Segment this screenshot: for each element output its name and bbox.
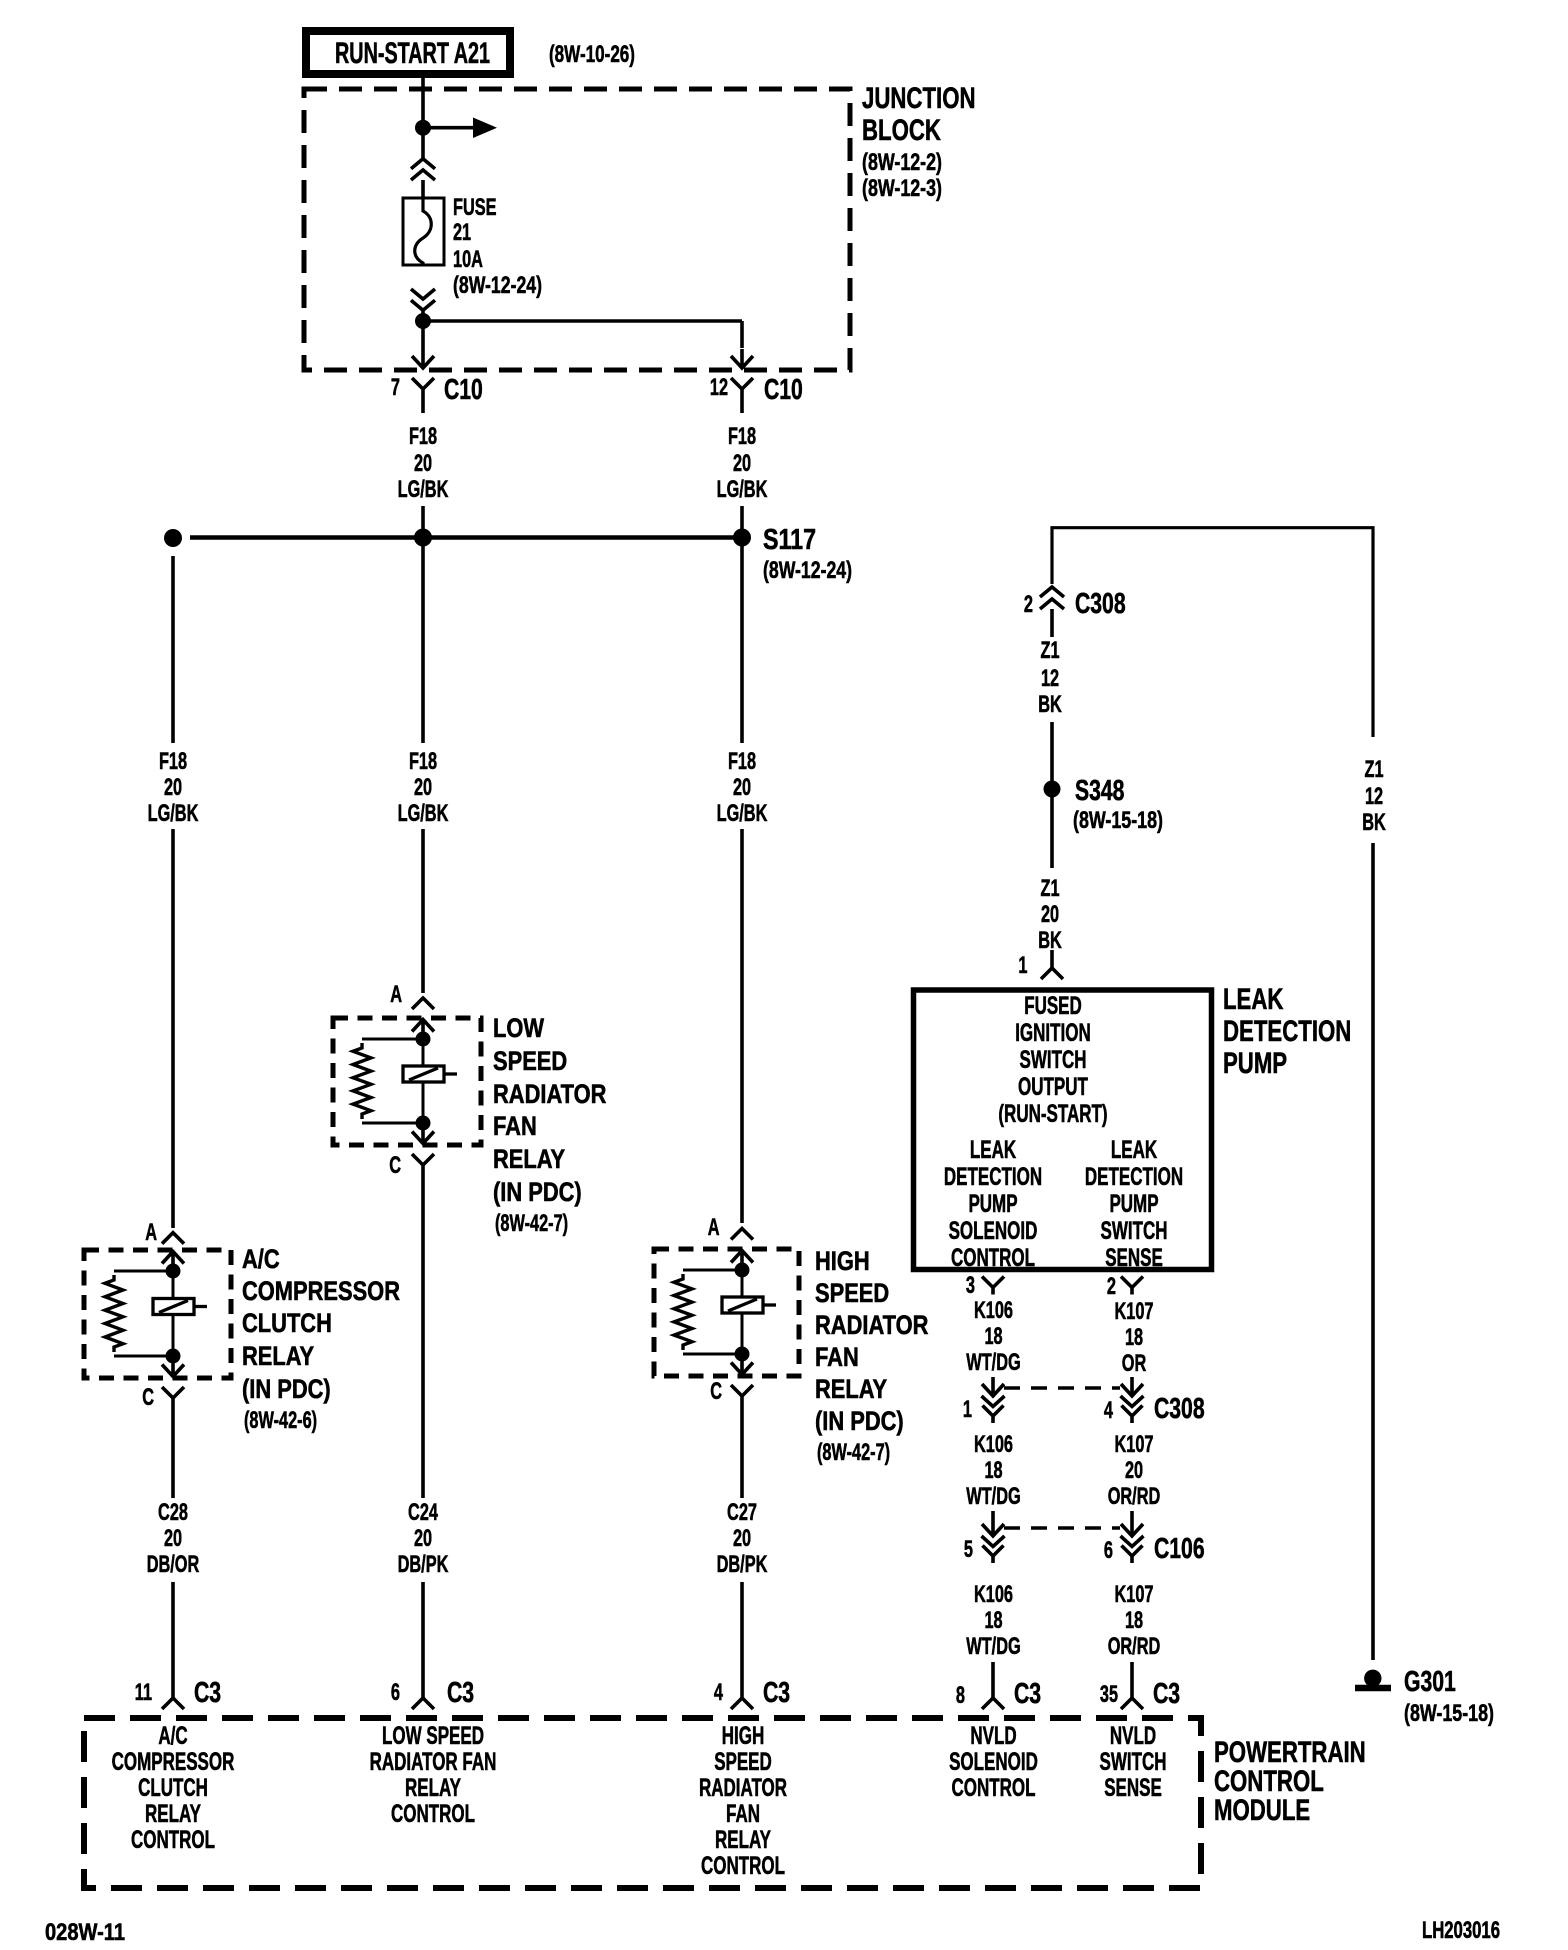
svg-text:COMPRESSOR: COMPRESSOR bbox=[242, 1276, 400, 1306]
svg-text:RUN-START A21: RUN-START A21 bbox=[335, 37, 490, 70]
svg-text:A/C: A/C bbox=[242, 1244, 280, 1274]
svg-text:(RUN-START): (RUN-START) bbox=[998, 1100, 1107, 1128]
svg-text:CLUTCH: CLUTCH bbox=[242, 1308, 332, 1338]
svg-text:PUMP: PUMP bbox=[1109, 1190, 1158, 1218]
svg-text:LG/BK: LG/BK bbox=[398, 476, 449, 503]
svg-text:LG/BK: LG/BK bbox=[717, 800, 768, 827]
svg-text:CONTROL: CONTROL bbox=[951, 1244, 1035, 1272]
svg-text:K106: K106 bbox=[974, 1297, 1013, 1324]
svg-text:C: C bbox=[710, 1378, 722, 1405]
svg-text:RELAY: RELAY bbox=[145, 1800, 201, 1828]
svg-text:C: C bbox=[389, 1152, 401, 1179]
svg-text:C3: C3 bbox=[763, 1677, 790, 1709]
svg-text:35: 35 bbox=[1100, 1681, 1118, 1708]
svg-text:(8W-12-3): (8W-12-3) bbox=[862, 175, 942, 202]
svg-text:SENSE: SENSE bbox=[1105, 1244, 1163, 1272]
svg-text:RELAY: RELAY bbox=[405, 1774, 461, 1802]
svg-text:RELAY: RELAY bbox=[815, 1374, 887, 1404]
svg-text:BK: BK bbox=[1038, 927, 1062, 954]
svg-text:SPEED: SPEED bbox=[815, 1278, 889, 1308]
svg-text:20: 20 bbox=[733, 774, 751, 801]
svg-text:6: 6 bbox=[1104, 1537, 1113, 1564]
svg-text:3: 3 bbox=[966, 1272, 975, 1299]
svg-text:(8W-15-18): (8W-15-18) bbox=[1404, 1700, 1494, 1727]
svg-text:LG/BK: LG/BK bbox=[398, 800, 449, 827]
svg-text:C: C bbox=[142, 1384, 154, 1411]
svg-text:18: 18 bbox=[1125, 1607, 1143, 1634]
svg-text:SPEED: SPEED bbox=[714, 1748, 772, 1776]
svg-text:SWITCH: SWITCH bbox=[1101, 1217, 1168, 1245]
svg-text:K107: K107 bbox=[1115, 1298, 1154, 1325]
svg-text:12: 12 bbox=[1041, 665, 1059, 692]
svg-text:(IN PDC): (IN PDC) bbox=[493, 1177, 582, 1207]
svg-text:C308: C308 bbox=[1075, 588, 1126, 620]
svg-text:4: 4 bbox=[1104, 1397, 1114, 1424]
svg-text:11: 11 bbox=[135, 1679, 152, 1706]
svg-text:WT/DG: WT/DG bbox=[966, 1633, 1020, 1660]
svg-text:PUMP: PUMP bbox=[1223, 1047, 1287, 1080]
svg-text:12: 12 bbox=[1365, 783, 1383, 810]
svg-text:C24: C24 bbox=[408, 1499, 438, 1526]
svg-text:10A: 10A bbox=[453, 246, 483, 273]
svg-text:6: 6 bbox=[391, 1679, 400, 1706]
svg-text:LEAK: LEAK bbox=[1111, 1136, 1157, 1164]
svg-text:12: 12 bbox=[710, 374, 728, 401]
svg-text:C3: C3 bbox=[194, 1677, 221, 1709]
svg-text:FAN: FAN bbox=[726, 1800, 760, 1828]
svg-text:MODULE: MODULE bbox=[1214, 1794, 1310, 1827]
svg-text:20: 20 bbox=[733, 450, 751, 477]
svg-text:FUSE: FUSE bbox=[453, 194, 497, 221]
svg-text:(8W-42-7): (8W-42-7) bbox=[495, 1210, 568, 1237]
svg-text:JUNCTION: JUNCTION bbox=[862, 82, 976, 115]
svg-text:C10: C10 bbox=[764, 374, 803, 406]
svg-text:21: 21 bbox=[453, 219, 471, 246]
svg-text:F18: F18 bbox=[409, 748, 437, 775]
svg-text:C308: C308 bbox=[1154, 1393, 1205, 1425]
svg-text:RADIATOR: RADIATOR bbox=[699, 1774, 787, 1802]
svg-text:WT/DG: WT/DG bbox=[966, 1483, 1020, 1510]
svg-text:LG/BK: LG/BK bbox=[148, 800, 199, 827]
svg-text:20: 20 bbox=[164, 774, 182, 801]
svg-text:FAN: FAN bbox=[815, 1342, 859, 1372]
svg-text:WT/DG: WT/DG bbox=[966, 1349, 1020, 1376]
svg-text:S348: S348 bbox=[1075, 775, 1124, 807]
svg-text:5: 5 bbox=[964, 1536, 973, 1563]
svg-text:(8W-15-18): (8W-15-18) bbox=[1073, 807, 1163, 834]
svg-text:HIGH: HIGH bbox=[815, 1246, 870, 1276]
svg-text:LEAK: LEAK bbox=[970, 1136, 1016, 1164]
svg-text:Z1: Z1 bbox=[1041, 875, 1060, 902]
svg-text:NVLD: NVLD bbox=[970, 1722, 1016, 1750]
svg-text:DB/PK: DB/PK bbox=[717, 1551, 768, 1578]
svg-text:IGNITION: IGNITION bbox=[1015, 1019, 1091, 1047]
svg-text:20: 20 bbox=[164, 1525, 182, 1552]
svg-text:SWITCH: SWITCH bbox=[1020, 1046, 1087, 1074]
svg-text:C3: C3 bbox=[447, 1677, 474, 1709]
svg-text:COMPRESSOR: COMPRESSOR bbox=[112, 1748, 235, 1776]
svg-text:CONTROL: CONTROL bbox=[131, 1826, 215, 1854]
svg-text:20: 20 bbox=[1125, 1457, 1143, 1484]
svg-text:K107: K107 bbox=[1115, 1431, 1154, 1458]
svg-text:FUSED: FUSED bbox=[1024, 992, 1082, 1020]
svg-text:18: 18 bbox=[984, 1457, 1002, 1484]
svg-text:(8W-12-24): (8W-12-24) bbox=[453, 272, 542, 299]
svg-text:028W-11: 028W-11 bbox=[45, 1919, 125, 1946]
svg-text:1: 1 bbox=[963, 1396, 972, 1423]
svg-text:LH203016: LH203016 bbox=[1422, 1917, 1500, 1944]
svg-text:F18: F18 bbox=[728, 423, 756, 450]
svg-text:G301: G301 bbox=[1404, 1666, 1456, 1698]
svg-text:FAN: FAN bbox=[493, 1111, 537, 1141]
svg-text:RELAY: RELAY bbox=[715, 1826, 771, 1854]
svg-text:DB/OR: DB/OR bbox=[147, 1551, 200, 1578]
svg-text:Z1: Z1 bbox=[1365, 756, 1384, 783]
svg-text:LOW SPEED: LOW SPEED bbox=[382, 1722, 484, 1750]
svg-text:OUTPUT: OUTPUT bbox=[1018, 1073, 1088, 1101]
svg-text:18: 18 bbox=[984, 1323, 1002, 1350]
svg-text:RADIATOR: RADIATOR bbox=[493, 1079, 606, 1109]
svg-text:C28: C28 bbox=[158, 1499, 188, 1526]
svg-text:BLOCK: BLOCK bbox=[862, 114, 941, 147]
svg-text:4: 4 bbox=[714, 1679, 724, 1706]
svg-text:A: A bbox=[390, 981, 402, 1008]
svg-text:OR/RD: OR/RD bbox=[1108, 1633, 1161, 1660]
svg-text:RADIATOR: RADIATOR bbox=[815, 1310, 928, 1340]
svg-text:HIGH: HIGH bbox=[722, 1722, 765, 1750]
svg-text:K106: K106 bbox=[974, 1581, 1013, 1608]
svg-text:C27: C27 bbox=[727, 1499, 757, 1526]
svg-text:20: 20 bbox=[414, 450, 432, 477]
svg-text:K106: K106 bbox=[974, 1431, 1013, 1458]
svg-text:SPEED: SPEED bbox=[493, 1046, 567, 1076]
svg-text:20: 20 bbox=[733, 1525, 751, 1552]
svg-text:C3: C3 bbox=[1014, 1678, 1041, 1710]
svg-text:(IN PDC): (IN PDC) bbox=[815, 1406, 904, 1436]
svg-text:(8W-12-24): (8W-12-24) bbox=[763, 557, 852, 584]
svg-text:SOLENOID: SOLENOID bbox=[949, 1217, 1038, 1245]
svg-text:RELAY: RELAY bbox=[242, 1341, 314, 1371]
svg-text:18: 18 bbox=[1125, 1324, 1143, 1351]
svg-text:CONTROL: CONTROL bbox=[701, 1852, 785, 1880]
svg-text:C106: C106 bbox=[1154, 1533, 1205, 1565]
svg-text:8: 8 bbox=[956, 1682, 965, 1709]
svg-text:CLUTCH: CLUTCH bbox=[138, 1774, 208, 1802]
svg-text:A: A bbox=[708, 1214, 720, 1241]
svg-text:LOW: LOW bbox=[493, 1013, 544, 1043]
svg-text:(8W-12-2): (8W-12-2) bbox=[862, 149, 942, 176]
svg-text:F18: F18 bbox=[728, 748, 756, 775]
svg-text:C3: C3 bbox=[1153, 1678, 1180, 1710]
svg-text:DETECTION: DETECTION bbox=[944, 1163, 1042, 1191]
svg-text:18: 18 bbox=[984, 1607, 1002, 1634]
svg-text:20: 20 bbox=[414, 774, 432, 801]
svg-text:OR/RD: OR/RD bbox=[1108, 1483, 1161, 1510]
svg-text:C10: C10 bbox=[444, 374, 483, 406]
svg-text:(8W-10-26): (8W-10-26) bbox=[549, 41, 635, 68]
svg-text:A: A bbox=[145, 1219, 157, 1246]
svg-text:PUMP: PUMP bbox=[968, 1190, 1017, 1218]
svg-text:K107: K107 bbox=[1115, 1581, 1154, 1608]
svg-text:1: 1 bbox=[1018, 952, 1027, 979]
svg-text:(IN PDC): (IN PDC) bbox=[242, 1374, 331, 1404]
svg-text:SWITCH: SWITCH bbox=[1100, 1748, 1167, 1776]
svg-text:Z1: Z1 bbox=[1041, 637, 1060, 664]
svg-text:7: 7 bbox=[391, 374, 400, 401]
svg-text:F18: F18 bbox=[159, 748, 187, 775]
svg-text:S117: S117 bbox=[763, 524, 816, 556]
svg-text:BK: BK bbox=[1038, 691, 1062, 718]
svg-text:LG/BK: LG/BK bbox=[717, 476, 768, 503]
svg-text:2: 2 bbox=[1107, 1273, 1116, 1300]
svg-text:BK: BK bbox=[1362, 809, 1386, 836]
svg-text:RADIATOR FAN: RADIATOR FAN bbox=[370, 1748, 497, 1776]
svg-text:F18: F18 bbox=[409, 423, 437, 450]
svg-text:OR: OR bbox=[1122, 1350, 1147, 1377]
svg-text:20: 20 bbox=[1041, 901, 1059, 928]
svg-text:DB/PK: DB/PK bbox=[398, 1551, 449, 1578]
svg-text:SOLENOID: SOLENOID bbox=[949, 1748, 1038, 1776]
svg-text:20: 20 bbox=[414, 1525, 432, 1552]
svg-text:SENSE: SENSE bbox=[1104, 1774, 1162, 1802]
svg-text:DETECTION: DETECTION bbox=[1223, 1015, 1351, 1048]
svg-text:CONTROL: CONTROL bbox=[952, 1774, 1036, 1802]
svg-text:(8W-42-6): (8W-42-6) bbox=[244, 1407, 317, 1434]
svg-text:RELAY: RELAY bbox=[493, 1144, 565, 1174]
svg-text:2: 2 bbox=[1024, 591, 1033, 618]
svg-text:(8W-42-7): (8W-42-7) bbox=[817, 1439, 890, 1466]
svg-text:LEAK: LEAK bbox=[1223, 983, 1284, 1016]
svg-text:CONTROL: CONTROL bbox=[391, 1800, 475, 1828]
svg-text:NVLD: NVLD bbox=[1110, 1722, 1156, 1750]
svg-text:DETECTION: DETECTION bbox=[1085, 1163, 1183, 1191]
svg-text:A/C: A/C bbox=[158, 1722, 187, 1750]
